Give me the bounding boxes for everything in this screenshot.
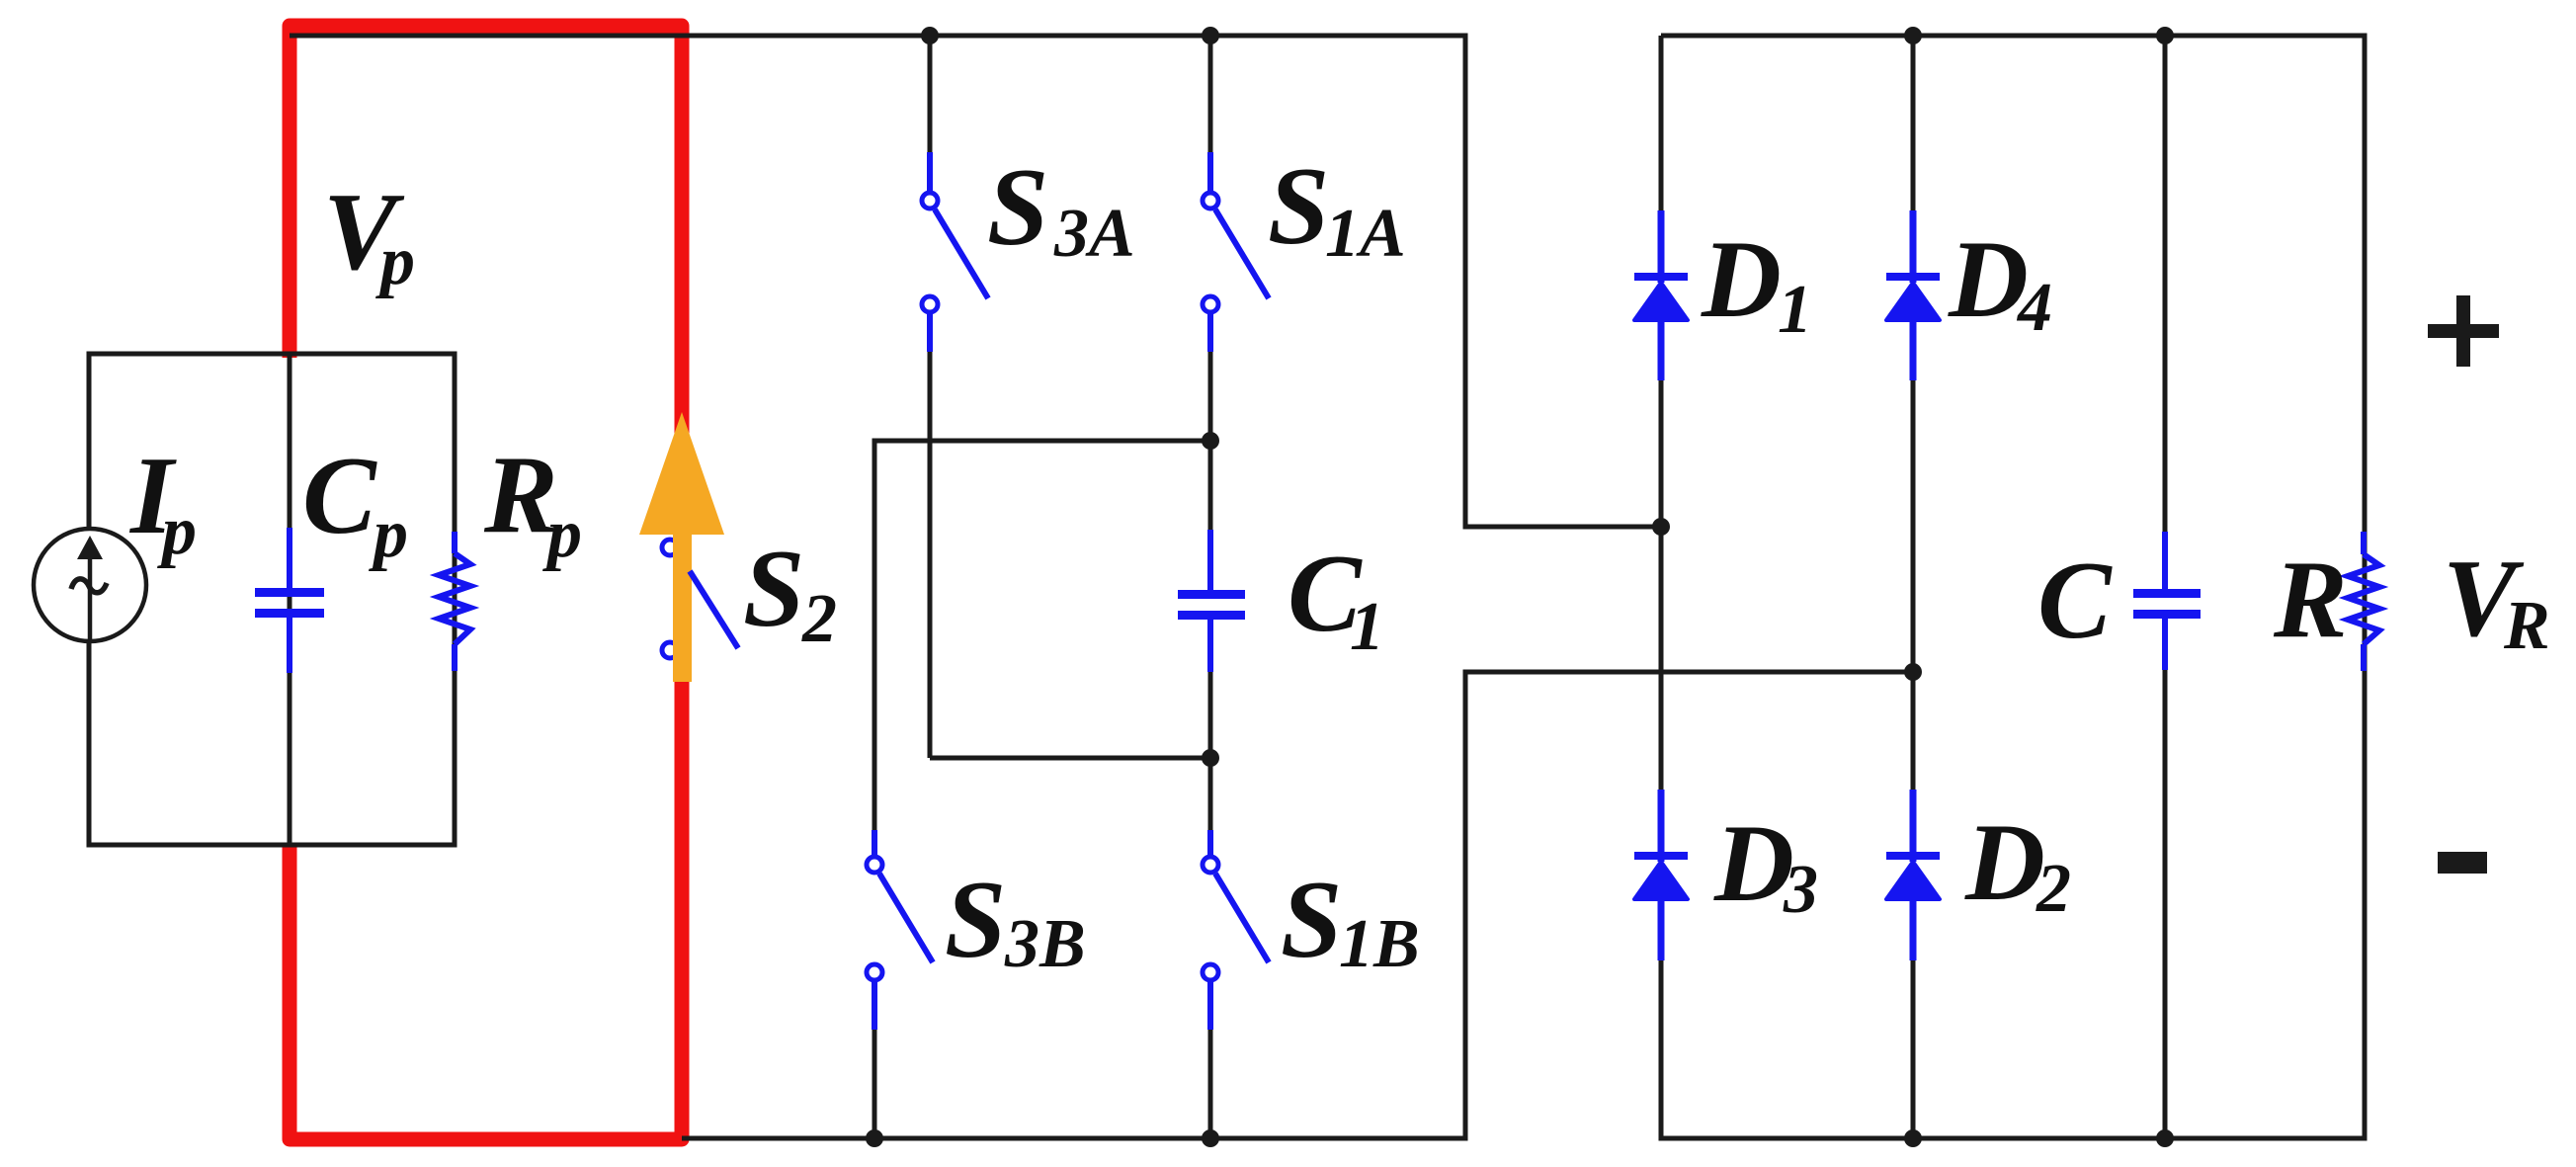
svg-text:S: S bbox=[945, 859, 1006, 981]
svg-text:p: p bbox=[542, 496, 582, 572]
svg-text:p: p bbox=[375, 223, 415, 299]
svg-text:C: C bbox=[302, 435, 377, 557]
svg-text:3B: 3B bbox=[1004, 906, 1086, 982]
svg-text:2: 2 bbox=[801, 581, 837, 657]
svg-text:3A: 3A bbox=[1053, 196, 1135, 272]
svg-text:D: D bbox=[1964, 801, 2045, 924]
svg-text:S: S bbox=[987, 146, 1048, 269]
svg-text:4: 4 bbox=[2016, 270, 2052, 346]
svg-text:R: R bbox=[2273, 539, 2348, 661]
svg-text:D: D bbox=[1701, 218, 1782, 341]
svg-text:1: 1 bbox=[1350, 589, 1384, 665]
svg-text:D: D bbox=[1948, 218, 2029, 341]
svg-text:p: p bbox=[157, 493, 197, 569]
svg-text:p: p bbox=[369, 496, 408, 572]
svg-text:1B: 1B bbox=[1339, 906, 1420, 982]
svg-text:C: C bbox=[2037, 540, 2113, 662]
svg-text:S: S bbox=[743, 528, 804, 650]
svg-text:D: D bbox=[1713, 802, 1794, 925]
svg-text:R: R bbox=[2503, 588, 2550, 664]
svg-text:1A: 1A bbox=[1325, 196, 1406, 272]
svg-text:S: S bbox=[1281, 859, 1342, 981]
svg-text:S: S bbox=[1268, 145, 1329, 268]
svg-text:1: 1 bbox=[1778, 272, 1812, 348]
svg-text:2: 2 bbox=[2036, 851, 2071, 927]
svg-text:3: 3 bbox=[1783, 852, 1818, 928]
